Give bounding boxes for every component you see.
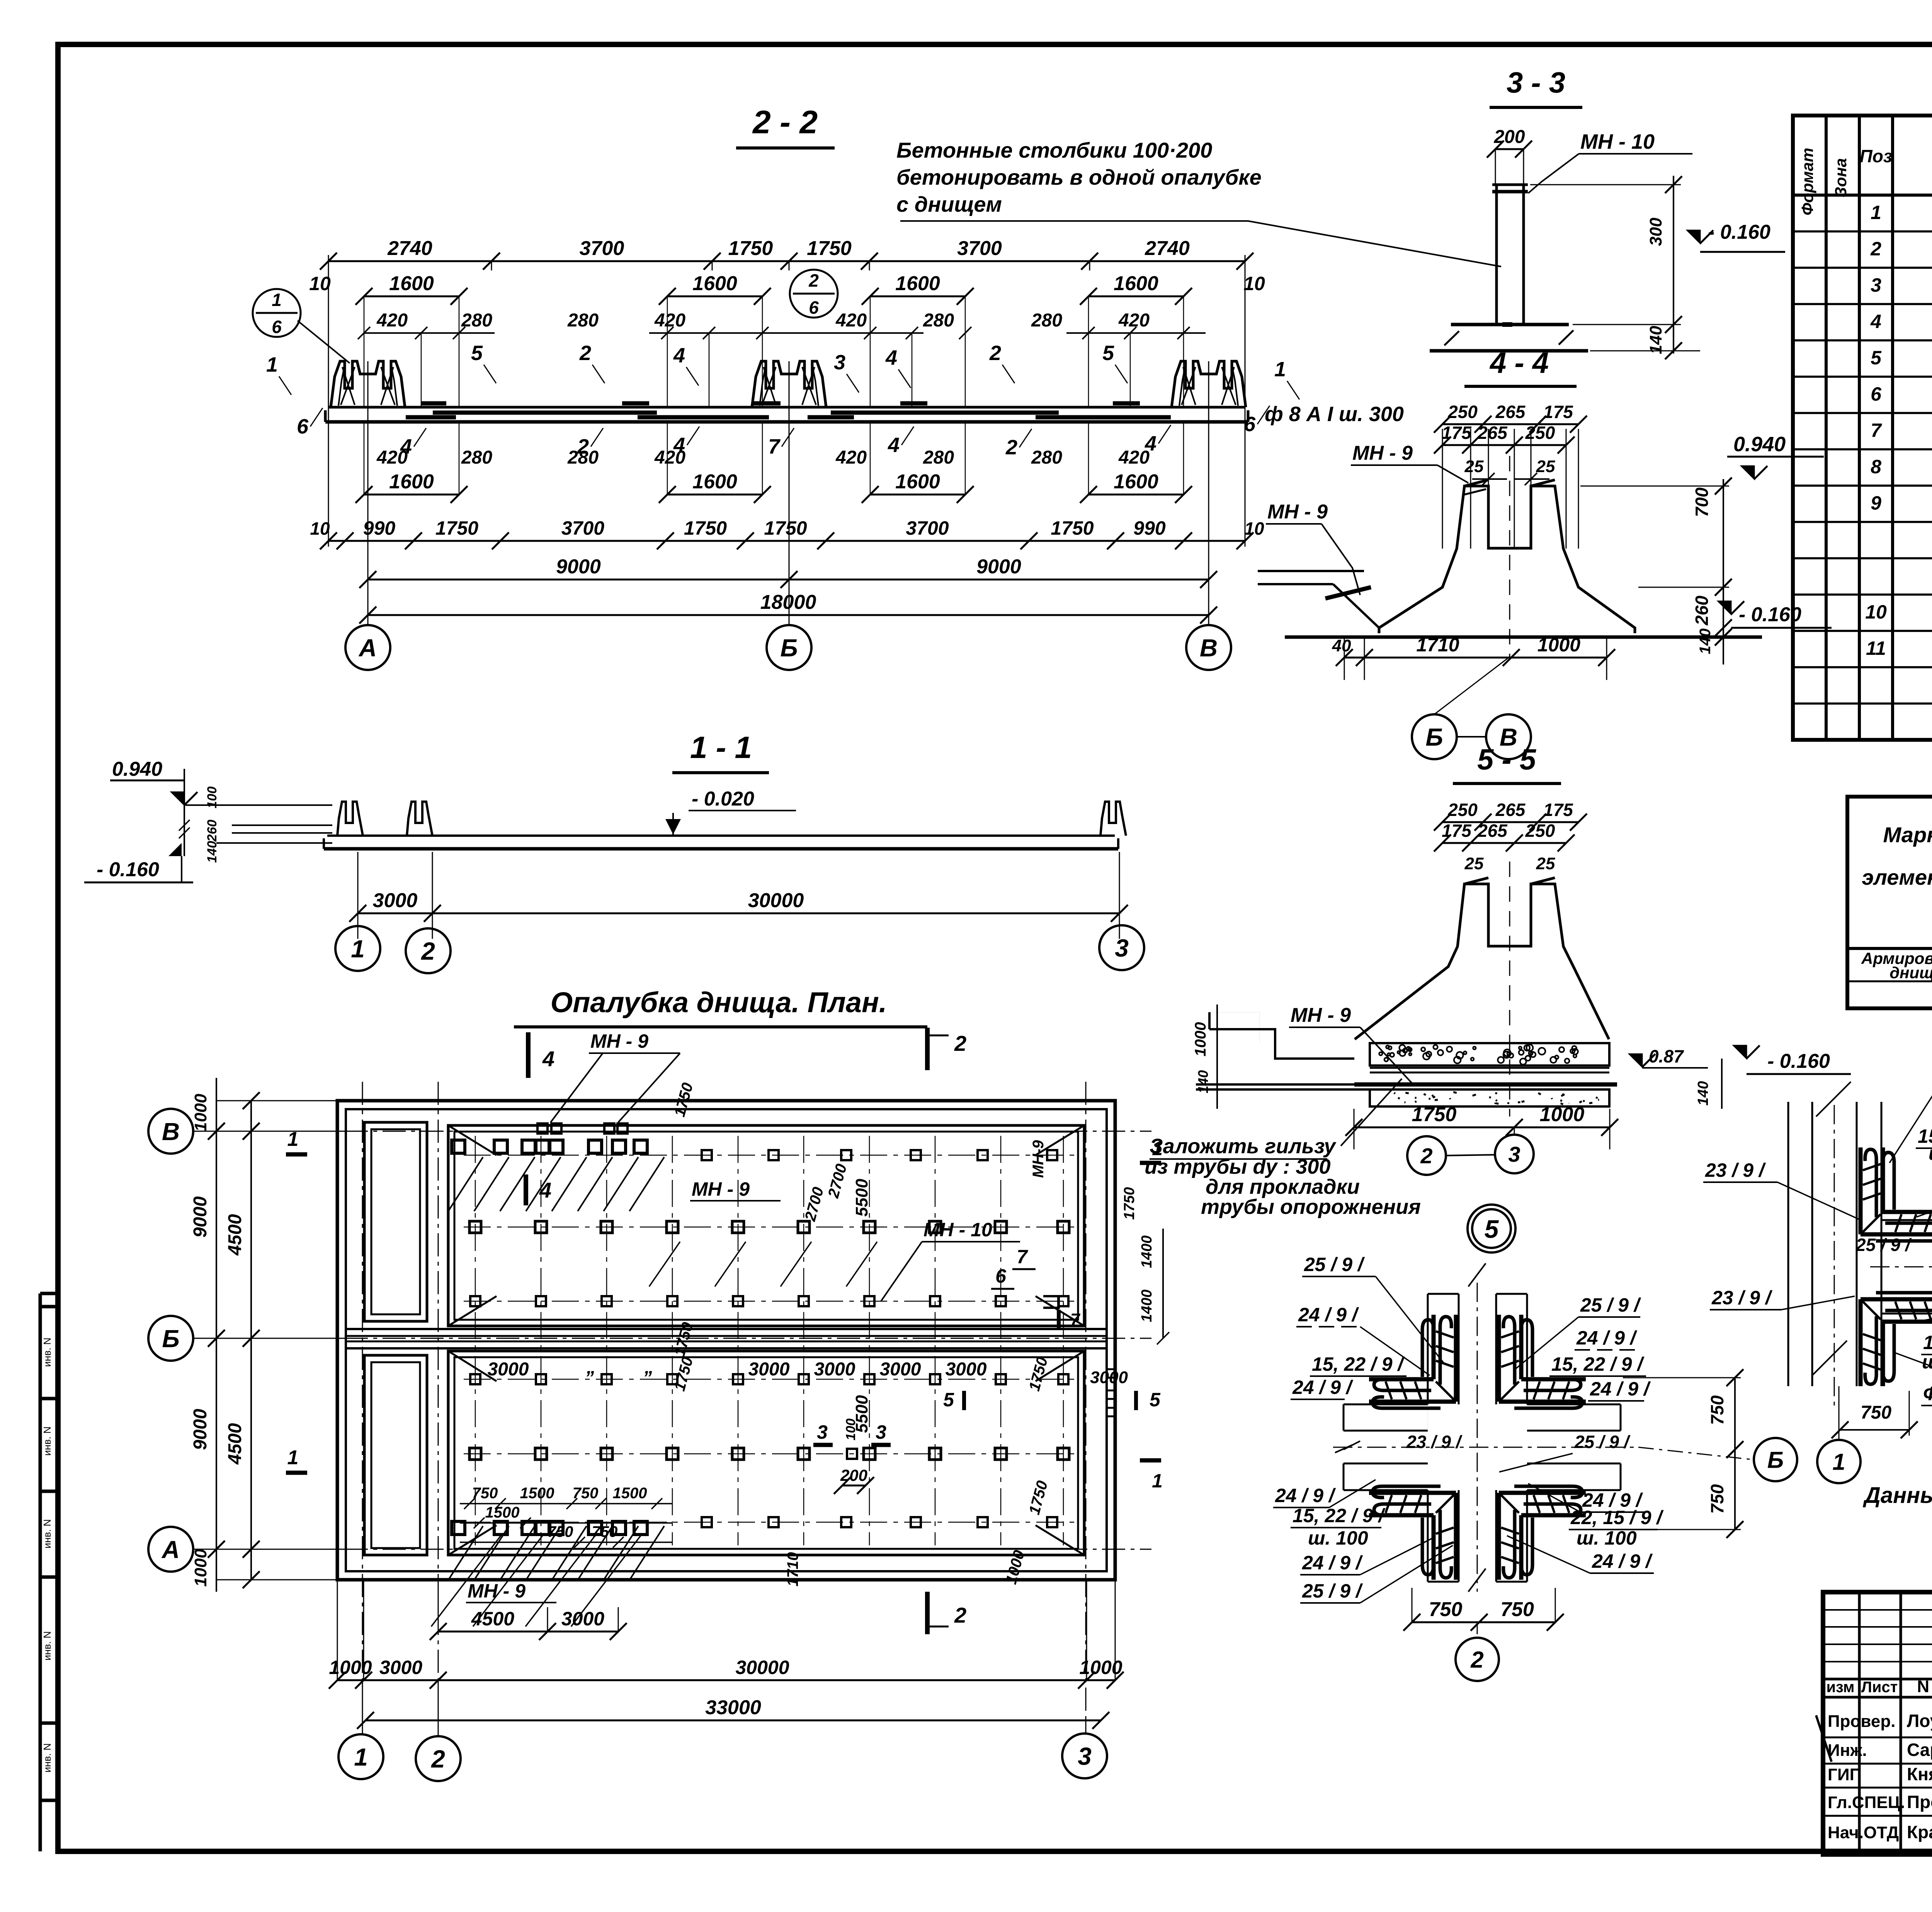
- svg-text:1600: 1600: [389, 471, 434, 493]
- witness verticals 1600 rows to slab: [364, 296, 365, 407]
- svg-text:265: 265: [1477, 423, 1508, 443]
- section cut marks 1 left: [286, 1152, 307, 1157]
- right side small squares on wall: [1107, 1369, 1115, 1378]
- svg-text:25: 25: [1464, 457, 1484, 476]
- svg-text:изм: изм: [1826, 1679, 1854, 1696]
- svg-text:ГИП: ГИП: [1828, 1765, 1862, 1784]
- dashed centerline 4-4: [1509, 456, 1510, 657]
- svg-text:МН-9: МН-9: [1030, 1140, 1047, 1178]
- dash-dot column axes in plan: [475, 1136, 476, 1545]
- svg-text:1500: 1500: [613, 1485, 647, 1502]
- svg-text:25: 25: [1464, 854, 1484, 873]
- dims above 5-5: [1442, 821, 1578, 823]
- detail 5 hooks LR: [1499, 1486, 1586, 1580]
- section cut mark 4 top: [526, 1032, 531, 1078]
- cut marks 3-3 inside lower compartment: [813, 1443, 833, 1447]
- svg-text:5: 5: [1102, 342, 1114, 365]
- svg-text:бетонировать в одной опалубке: бетонировать в одной опалубке: [896, 165, 1262, 189]
- plan left dim chains: [216, 1078, 217, 1592]
- svg-text:7: 7: [768, 435, 781, 458]
- detail 4 bottom dim 750: [1840, 1429, 1909, 1431]
- svg-text:1400: 1400: [1139, 1290, 1155, 1322]
- title block left thin rows: [1823, 1609, 1932, 1611]
- svg-text:3000: 3000: [814, 1359, 855, 1380]
- witness verticals 4-4: [1442, 429, 1443, 549]
- svg-text:1750: 1750: [728, 237, 773, 260]
- svg-text:1600: 1600: [692, 471, 737, 493]
- svg-text:175: 175: [1543, 800, 1573, 820]
- svg-text:Инж.: Инж.: [1828, 1741, 1867, 1760]
- 5-5 upper gravel band: [1370, 1043, 1609, 1066]
- svg-text:1000: 1000: [1079, 1657, 1122, 1678]
- svg-text:2: 2: [954, 1603, 966, 1627]
- svg-text:- 0.020: - 0.020: [692, 788, 754, 810]
- svg-text:N докум.: N докум.: [1917, 1677, 1932, 1696]
- wall embedded squares MN-9 top: [537, 1123, 548, 1134]
- svg-text:инв. N: инв. N: [41, 1743, 53, 1773]
- svg-text:6: 6: [1244, 413, 1256, 436]
- svg-text:1: 1: [1152, 1470, 1163, 1492]
- svg-text:А: А: [358, 634, 377, 662]
- svg-text:Формат: Формат: [1798, 148, 1816, 215]
- svg-text:10: 10: [1244, 518, 1264, 539]
- svg-text:9000: 9000: [190, 1409, 211, 1450]
- detail 5 dim 750 750 bottom: [1412, 1621, 1555, 1623]
- svg-text:3700: 3700: [957, 237, 1002, 260]
- spec table grid: [1793, 116, 1932, 740]
- svg-text:265: 265: [1477, 821, 1508, 841]
- left adjacent slab 5-5: [1209, 1029, 1354, 1059]
- section 4-4 profile: [1379, 486, 1635, 633]
- svg-text:265: 265: [1495, 402, 1526, 422]
- section 2-2 slab profile: [328, 406, 1245, 409]
- svg-text:300: 300: [1646, 218, 1665, 246]
- axis circle A: [367, 623, 369, 625]
- svg-text:4: 4: [888, 433, 900, 457]
- svg-text:250: 250: [1447, 402, 1478, 422]
- svg-text:750: 750: [1861, 1402, 1891, 1423]
- svg-text:ф 8 А I ш. 300: ф 8 А I ш. 300: [1265, 403, 1404, 426]
- svg-text:4: 4: [885, 346, 897, 369]
- dims 175 265 250 second row of 4-4: [1442, 444, 1566, 446]
- svg-text:2700: 2700: [825, 1162, 850, 1200]
- axis dash-dot lines to left circles: [193, 1131, 1151, 1132]
- plan formwork post squares upper compartment: [452, 1140, 465, 1153]
- svg-text:25 / 9 /: 25 / 9 /: [1302, 1580, 1363, 1602]
- section 3-3 base slab: [1451, 323, 1569, 326]
- svg-text:30000: 30000: [748, 889, 804, 912]
- svg-text:6: 6: [809, 297, 819, 318]
- plan lower compartment box: [448, 1351, 1084, 1555]
- detail 5 hooks UL: [1369, 1315, 1456, 1408]
- svg-text:24 / 9 /: 24 / 9 /: [1298, 1304, 1359, 1326]
- detail mark 2/6 circle: [790, 270, 838, 318]
- break zigzags cross: [1468, 1263, 1486, 1287]
- detail 5 right vertical dim 750 750: [1734, 1378, 1736, 1530]
- svg-text:МН - 9: МН - 9: [692, 1178, 750, 1200]
- svg-text:Гл.СПЕЦ.: Гл.СПЕЦ.: [1828, 1793, 1905, 1812]
- svg-text:- 0.160: - 0.160: [1767, 1050, 1830, 1072]
- pylon at axis B(center): [752, 361, 826, 407]
- svg-text:265: 265: [1495, 800, 1526, 820]
- svg-text:2: 2: [579, 342, 591, 365]
- cut marks 5 right of plan: [962, 1391, 966, 1410]
- svg-text:1600: 1600: [1114, 272, 1158, 295]
- mini pylon 1-1 right: [1100, 802, 1126, 836]
- svg-text:2 - 2: 2 - 2: [752, 104, 818, 140]
- svg-text:420: 420: [376, 310, 408, 331]
- svg-text:25 / 9 /: 25 / 9 /: [1574, 1432, 1631, 1452]
- detail mark 1/6 circle left: [253, 289, 301, 337]
- detail 4 dash axis: [1834, 1105, 1835, 1406]
- axis circle V plan: [148, 1109, 193, 1154]
- svg-text:МН - 9: МН - 9: [1267, 501, 1328, 523]
- svg-text:МН - 10: МН - 10: [923, 1219, 992, 1241]
- svg-text:МН - 9: МН - 9: [1291, 1004, 1351, 1027]
- svg-text:1: 1: [1871, 202, 1881, 223]
- plan outer rectangle: [337, 1101, 1115, 1580]
- svg-text:23 / 9 /: 23 / 9 /: [1406, 1432, 1463, 1452]
- svg-text:280: 280: [1031, 310, 1062, 331]
- svg-text:1000: 1000: [191, 1094, 210, 1132]
- svg-text:2: 2: [954, 1031, 966, 1055]
- svg-text:3: 3: [876, 1421, 886, 1443]
- svg-text:ш. 100: ш. 100: [1577, 1527, 1637, 1549]
- svg-text:250: 250: [1525, 423, 1555, 443]
- dim 200 small lower compartment: [842, 1485, 866, 1487]
- svg-text:1500: 1500: [520, 1485, 554, 1502]
- svg-text:10: 10: [309, 273, 331, 294]
- svg-text:1 - 1: 1 - 1: [690, 730, 752, 765]
- hatch leaders МН-10 row: [649, 1242, 680, 1287]
- lower compartment corner chamfers: [448, 1351, 497, 1381]
- svg-text:24 / 9 /: 24 / 9 /: [1590, 1378, 1651, 1400]
- dim row 1600 lower: [364, 494, 459, 496]
- svg-text:250: 250: [1525, 821, 1555, 841]
- svg-text:1: 1: [1832, 1449, 1845, 1475]
- svg-text:750: 750: [1707, 1484, 1727, 1514]
- left margin stamp strip: [39, 1293, 42, 1851]
- lower compartment top row squares: [470, 1374, 480, 1384]
- detail 4 wall top breaks: [1816, 1082, 1851, 1117]
- axis circle 1 plan: [338, 1734, 383, 1779]
- svg-text:4: 4: [539, 1178, 551, 1202]
- svg-text:3000: 3000: [748, 1359, 790, 1380]
- dim row 18000: [368, 614, 1209, 616]
- svg-text:Лоуцкер: Лоуцкер: [1907, 1711, 1932, 1731]
- svg-text:1: 1: [354, 1743, 368, 1771]
- svg-text:5: 5: [1150, 1389, 1161, 1411]
- svg-text:1: 1: [266, 353, 278, 376]
- svg-text:3: 3: [1115, 934, 1129, 962]
- svg-text:ш. 100: ш. 100: [1308, 1527, 1368, 1549]
- svg-text:2: 2: [1870, 238, 1881, 260]
- svg-text:25: 25: [1536, 457, 1555, 476]
- svg-text:7: 7: [1070, 1310, 1081, 1329]
- svg-text:1600: 1600: [895, 471, 940, 493]
- witness lines top dims: [328, 261, 329, 270]
- svg-text:3000: 3000: [946, 1359, 987, 1380]
- svg-text:25: 25: [1536, 854, 1555, 873]
- svg-text:10: 10: [1865, 601, 1887, 623]
- svg-text:- 0.160: - 0.160: [97, 858, 159, 881]
- dim 200 above stub: [1495, 148, 1524, 150]
- dim row 10-990-1750-3700-1750-1750-3700-1750-990-10: [328, 540, 1245, 542]
- svg-text:24 / 9 /: 24 / 9 /: [1302, 1552, 1363, 1574]
- svg-text:МН - 9: МН - 9: [1352, 442, 1413, 464]
- svg-text:10: 10: [1243, 273, 1265, 294]
- svg-text:25 / 9 /: 25 / 9 /: [1855, 1235, 1912, 1255]
- svg-text:0.940: 0.940: [112, 758, 162, 780]
- svg-text:Опалубка днища. План.: Опалубка днища. План.: [551, 986, 887, 1018]
- big slash mark left: [1816, 1715, 1832, 1762]
- detail 4 horizontal wall lines: [1881, 1212, 1932, 1214]
- svg-text:Заложить гильзу: Заложить гильзу: [1150, 1135, 1337, 1158]
- detail 5 number circle: [1468, 1205, 1515, 1253]
- plan upper compartment box: [448, 1125, 1084, 1326]
- svg-text:3: 3: [817, 1421, 828, 1443]
- svg-text:- 0.160: - 0.160: [1708, 221, 1770, 243]
- svg-text:1: 1: [272, 290, 282, 310]
- cross wall closures: [1343, 1404, 1345, 1431]
- svg-text:Пронин: Пронин: [1907, 1792, 1932, 1812]
- svg-text:1000: 1000: [191, 1549, 210, 1587]
- svg-text:280: 280: [461, 310, 492, 331]
- svg-text:6: 6: [1871, 383, 1882, 405]
- axis circle V: [1186, 625, 1231, 670]
- svg-text:280: 280: [923, 310, 954, 331]
- svg-text:25 / 9 /: 25 / 9 /: [1304, 1254, 1365, 1275]
- axis circle 1 between details: [1817, 1440, 1861, 1483]
- svg-text:3700: 3700: [906, 517, 949, 539]
- svg-text:24 / 9 /: 24 / 9 /: [1592, 1550, 1653, 1572]
- svg-text:Поз: Поз: [1860, 146, 1893, 166]
- axis circle A plan: [148, 1527, 193, 1572]
- svg-text:420: 420: [376, 447, 408, 468]
- svg-text:33000: 33000: [705, 1696, 761, 1719]
- svg-text:22, 15 / 9 /: 22, 15 / 9 /: [1570, 1507, 1664, 1528]
- svg-text:1: 1: [351, 935, 365, 963]
- svg-text:днища: днища: [1889, 964, 1932, 982]
- detail 4 vertical wall lines: [1787, 1102, 1789, 1386]
- svg-text:8: 8: [1871, 456, 1881, 478]
- svg-text:1500: 1500: [485, 1504, 520, 1521]
- svg-text:МН - 9: МН - 9: [590, 1030, 648, 1052]
- svg-text:250: 250: [1447, 800, 1478, 820]
- dim row 2740-3700-1750-1750-3700-2740: [328, 260, 1245, 262]
- section cut mark 2 bottom: [925, 1592, 930, 1634]
- svg-text:280: 280: [923, 447, 954, 468]
- svg-text:2: 2: [989, 342, 1001, 365]
- svg-text:1750: 1750: [764, 517, 807, 539]
- leader from note to section 3-3 stub: [900, 221, 1501, 267]
- svg-text:3700: 3700: [580, 237, 624, 260]
- svg-text:Б: Б: [780, 634, 798, 662]
- svg-text:260: 260: [205, 820, 219, 842]
- svg-text:ш. 100: ш. 100: [1922, 1351, 1932, 1373]
- svg-text:1000: 1000: [329, 1657, 372, 1678]
- svg-text:420: 420: [1118, 310, 1150, 331]
- dim row 1750 1000 of 5-5: [1354, 1127, 1610, 1129]
- svg-text:Ф8АI ш. 100: Ф8АI ш. 100: [1923, 1383, 1932, 1404]
- axis circle B: [767, 625, 811, 670]
- svg-text:1710: 1710: [1416, 634, 1459, 656]
- svg-text:Княгиничев: Княгиничев: [1907, 1764, 1932, 1784]
- detail 5 hooks LL: [1369, 1486, 1456, 1580]
- svg-text:24 / 9 /: 24 / 9 /: [1275, 1485, 1336, 1506]
- svg-text:Данный лист см. совместно с: Данный лист см. совместно с листами КЖ-6…: [1862, 1483, 1932, 1508]
- leader gilzu to plan wall: [1341, 1079, 1402, 1146]
- svg-text:15, 22 / 9 /: 15, 22 / 9 /: [1923, 1332, 1932, 1353]
- svg-text:4500: 4500: [225, 1214, 245, 1256]
- elevation -0.160 right of 4-4: [1718, 601, 1731, 614]
- svg-text:2: 2: [1420, 1144, 1432, 1168]
- svg-text:24 / 9 /: 24 / 9 /: [1576, 1327, 1638, 1349]
- cut mark 7 small right: [1057, 1310, 1061, 1329]
- gravel stipple 5-5: [1447, 1047, 1452, 1052]
- hatch marks top-left cluster: [448, 1157, 483, 1211]
- svg-text:1: 1: [1152, 1138, 1163, 1159]
- svg-text:4 - 4: 4 - 4: [1489, 347, 1549, 379]
- svg-text:25 / 9 /: 25 / 9 /: [1580, 1294, 1641, 1316]
- svg-text:3000: 3000: [880, 1359, 921, 1380]
- dim row 40 1710 1000 of 4-4: [1344, 657, 1607, 659]
- svg-text:9: 9: [1871, 492, 1881, 514]
- section 1-1 slab: [327, 834, 1115, 837]
- section cut mark 4 inner: [524, 1174, 528, 1205]
- svg-text:„: „: [644, 1357, 654, 1378]
- 5-5 lower gravel band: [1370, 1089, 1609, 1106]
- svg-text:750: 750: [592, 1523, 618, 1540]
- upper compartment corner chamfers: [448, 1125, 497, 1155]
- 5-5 board lines: [1370, 1067, 1609, 1069]
- svg-text:280: 280: [567, 310, 599, 331]
- detail 5 cross walls horizontal: [1344, 1404, 1428, 1406]
- svg-text:Зона: Зона: [1832, 158, 1850, 197]
- svg-text:инв. N: инв. N: [41, 1338, 53, 1367]
- svg-text:420: 420: [654, 447, 685, 468]
- steel table grid: [1847, 797, 1932, 1008]
- svg-text:5 - 5: 5 - 5: [1477, 743, 1537, 776]
- svg-text:с днищем: с днищем: [896, 192, 1002, 216]
- svg-text:1750: 1750: [684, 517, 727, 539]
- svg-text:3: 3: [1078, 1742, 1092, 1770]
- left cut lines 1-1: [185, 804, 332, 806]
- cut marks 1 right (near plan right wall): [1140, 1161, 1161, 1165]
- pylon at axis V(right): [1172, 361, 1246, 407]
- mini pylons 1-1 left pair: [337, 802, 363, 836]
- svg-text:4: 4: [1870, 311, 1881, 332]
- svg-text:260: 260: [1692, 595, 1712, 625]
- svg-text:280: 280: [1031, 447, 1062, 468]
- svg-text:0.940: 0.940: [1733, 433, 1786, 456]
- svg-text:700: 700: [1692, 487, 1712, 517]
- elevation -0.160 right of 3-3: [1687, 230, 1700, 243]
- svg-text:1750: 1750: [1121, 1187, 1138, 1220]
- svg-text:Лист: Лист: [1861, 1679, 1898, 1696]
- dim row 3000 30000 under 1-1: [358, 913, 1119, 914]
- svg-text:7: 7: [1017, 1246, 1028, 1268]
- svg-text:280: 280: [567, 447, 599, 468]
- axis circles 1 2 3 under section 1-1: [335, 926, 380, 971]
- svg-text:3: 3: [834, 351, 845, 374]
- rotated dims 300 140 right of 3-3: [1673, 176, 1674, 354]
- slab rebar thick dashes: [433, 411, 657, 415]
- svg-text:140: 140: [205, 841, 219, 863]
- svg-text:инв. N: инв. N: [41, 1519, 53, 1548]
- svg-text:1750: 1750: [1026, 1479, 1051, 1516]
- svg-text:9000: 9000: [976, 556, 1021, 578]
- svg-text:4500: 4500: [471, 1608, 514, 1630]
- svg-text:2700: 2700: [801, 1185, 827, 1223]
- svg-text:1750: 1750: [435, 517, 478, 539]
- svg-text:420: 420: [654, 310, 685, 331]
- svg-text:2: 2: [421, 937, 435, 965]
- svg-text:30000: 30000: [735, 1657, 789, 1678]
- svg-text:„: „: [586, 1357, 596, 1378]
- lower middle row squares: [469, 1448, 481, 1460]
- svg-text:3 - 3: 3 - 3: [1507, 66, 1565, 99]
- plan bottom dim chains: [438, 1631, 618, 1633]
- svg-text:1000: 1000: [1540, 1103, 1585, 1126]
- svg-text:5: 5: [1871, 347, 1882, 369]
- svg-text:200: 200: [1493, 127, 1525, 147]
- svg-text:2740: 2740: [387, 237, 432, 260]
- svg-text:420: 420: [835, 310, 867, 331]
- svg-text:23 / 9 /: 23 / 9 /: [1711, 1287, 1773, 1309]
- svg-text:МН - 10: МН - 10: [1580, 130, 1655, 153]
- svg-text:175: 175: [1543, 402, 1573, 422]
- svg-text:420: 420: [1118, 447, 1150, 468]
- svg-text:1750: 1750: [807, 237, 852, 260]
- svg-text:140: 140: [1195, 1070, 1211, 1093]
- svg-text:МН - 9: МН - 9: [468, 1580, 526, 1602]
- svg-text:750: 750: [548, 1523, 573, 1540]
- svg-text:175: 175: [1442, 821, 1472, 841]
- upper middle row squares: [469, 1221, 481, 1233]
- svg-text:Б: Б: [1425, 723, 1443, 751]
- svg-text:4: 4: [542, 1047, 554, 1071]
- axis circles 2 3 under 5-5: [1514, 1127, 1515, 1136]
- svg-text:1750: 1750: [1412, 1103, 1457, 1126]
- svg-text:трубы опорожнения: трубы опорожнения: [1201, 1195, 1421, 1219]
- svg-text:7: 7: [1871, 420, 1882, 441]
- svg-text:В: В: [162, 1118, 180, 1146]
- svg-text:420: 420: [835, 447, 867, 468]
- bottom cluster leader lines: [431, 1536, 501, 1626]
- plan left end boxes: [364, 1122, 427, 1321]
- axis circle 2 plan: [416, 1736, 461, 1781]
- svg-text:3000: 3000: [488, 1359, 529, 1380]
- svg-text:элемента: элемента: [1862, 865, 1932, 889]
- svg-text:18000: 18000: [760, 591, 816, 614]
- section 5-5 profile stems: [1355, 884, 1609, 1039]
- svg-text:3700: 3700: [561, 517, 604, 539]
- svg-text:1600: 1600: [895, 272, 940, 295]
- svg-text:1600: 1600: [692, 272, 737, 295]
- svg-text:750: 750: [1500, 1598, 1534, 1621]
- svg-text:11: 11: [1866, 637, 1886, 659]
- dash-dot row axes in plan: [464, 1155, 1078, 1156]
- svg-text:1000: 1000: [1537, 634, 1580, 656]
- svg-text:10: 10: [310, 518, 330, 539]
- axis witness verticals 2-2: [367, 361, 369, 626]
- upper bottom row squares: [470, 1296, 480, 1306]
- svg-text:1400: 1400: [1139, 1236, 1155, 1268]
- svg-text:1710: 1710: [784, 1552, 801, 1587]
- svg-text:990: 990: [1133, 517, 1166, 539]
- svg-text:3000: 3000: [379, 1657, 422, 1678]
